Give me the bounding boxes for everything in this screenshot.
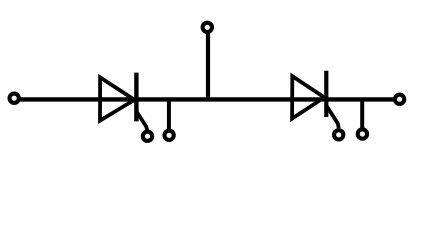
thyristor V1 gate lead: [137, 112, 148, 132]
thyristor V2 gate terminal: [334, 130, 343, 139]
thyristor V2 aux cathode lead: [360, 99, 364, 128]
thyristor V2 gate lead: [327, 106, 339, 128]
terminal 3 (right): [395, 95, 404, 104]
thyristor V1 aux cathode lead: [167, 99, 171, 130]
thyristor V1 cathode bar: [134, 73, 138, 122]
thyristor V2 triangle: [292, 76, 324, 118]
thyristor V2 aux cathode terminal: [358, 129, 367, 138]
thyristor V1 aux cathode terminal: [164, 131, 173, 140]
terminal 2 (top): [203, 23, 212, 32]
center tap wire: [206, 31, 210, 100]
main wire: [14, 97, 399, 101]
thyristor V1 triangle: [100, 77, 135, 120]
terminal 1 (left): [10, 94, 19, 103]
thyristor V1 gate terminal: [143, 132, 152, 141]
thyristor V2 cathode bar: [324, 71, 328, 117]
